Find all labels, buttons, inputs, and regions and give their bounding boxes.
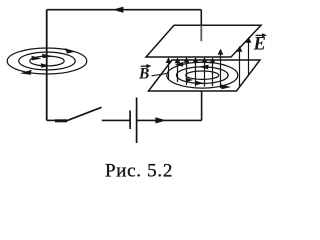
svg-text:E: E bbox=[253, 35, 266, 55]
E field arrow 8 bbox=[237, 46, 243, 87]
leader line from B to ellipses bbox=[152, 74, 167, 76]
B field ellipse inner (around left wire) bbox=[30, 56, 64, 66]
E field arrow 1 bbox=[166, 57, 172, 80]
current arrow on bottom wire (points right) bbox=[155, 117, 166, 123]
B field ellipse middle (between plates) bbox=[177, 67, 229, 84]
arrowhead on outer ellipse top-left (capacitor) bbox=[175, 62, 184, 67]
arrowhead on outer ellipse bottom-left bbox=[20, 70, 32, 75]
capacitor top plate bbox=[146, 25, 261, 57]
wire: top horizontal bbox=[47, 9, 202, 11]
switch contact pad bbox=[55, 119, 67, 122]
arrowhead on middle ellipse bottom (capacitor) bbox=[195, 81, 204, 86]
current arrow on top wire (points left) bbox=[113, 7, 124, 13]
svg-text:B: B bbox=[138, 66, 149, 83]
E field arrow 4 bbox=[193, 57, 199, 87]
arrowhead on outer ellipse bottom-right (capacitor) bbox=[221, 84, 232, 89]
arrowhead on outer ellipse top-right bbox=[65, 48, 74, 54]
wire: bottom left segment bbox=[47, 119, 56, 121]
E field arrow 6 bbox=[210, 57, 216, 86]
svg-text:Рис. 5.2: Рис. 5.2 bbox=[105, 161, 173, 182]
capacitor bottom plate bbox=[149, 60, 261, 91]
E field arrow 7 bbox=[218, 49, 224, 88]
B field ellipse outer (between plates) bbox=[167, 62, 238, 88]
B field ellipse outer (around left wire) bbox=[7, 48, 87, 74]
wire: left vertical bbox=[46, 10, 48, 121]
B field ellipse middle (around left wire) bbox=[19, 52, 75, 70]
B field ellipse inner (between plates) bbox=[186, 71, 219, 79]
E field arrow 9 (next to E label) bbox=[246, 37, 252, 75]
wire: switch to battery bbox=[102, 119, 130, 121]
arrowhead on inner ellipse bottom bbox=[41, 63, 50, 68]
battery long bar (positive) bbox=[136, 98, 138, 144]
arrowhead on middle ellipse top bbox=[42, 54, 53, 58]
arrowhead on inner ellipse bottom (capacitor) bbox=[186, 78, 194, 82]
wire segment on top plate face bbox=[200, 26, 202, 42]
wire: right vertical up to bottom plate bbox=[201, 91, 203, 120]
arrowhead on middle ellipse top-right (capacitor) bbox=[199, 65, 209, 70]
E field arrow 5 bbox=[202, 57, 208, 87]
E field arrow 2 bbox=[175, 57, 181, 82]
wire: battery to right riser bbox=[137, 119, 201, 121]
label E vector bbox=[253, 33, 268, 55]
battery short bar (negative) bbox=[129, 111, 131, 130]
switch blade (open) bbox=[67, 107, 102, 121]
wire: right vertical down to top plate bbox=[200, 10, 202, 26]
label B vector bbox=[138, 64, 151, 83]
arrowhead on inner ellipse top-left bbox=[32, 56, 42, 61]
E field arrow 3 bbox=[184, 57, 190, 85]
